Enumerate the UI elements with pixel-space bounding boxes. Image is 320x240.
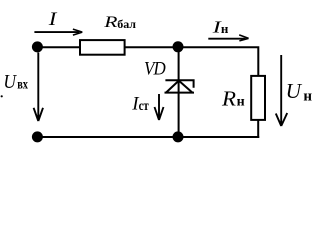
resistor Rбал (80, 40, 125, 55)
node bottom-middle (173, 131, 184, 142)
arrow voltage Uн (276, 55, 287, 126)
svg-text:VD: VD (144, 58, 166, 79)
wire Rн bottom lead (257, 120, 259, 138)
svg-text:вх: вх (17, 78, 28, 93)
svg-text:бал: бал (117, 17, 136, 31)
node top-left (32, 41, 43, 52)
zener diode VD cathode bar with hook (165, 80, 193, 88)
svg-text:R: R (103, 14, 118, 31)
svg-text:н: н (303, 89, 312, 105)
svg-text:н: н (221, 21, 229, 36)
svg-text:н: н (237, 94, 245, 109)
wire bottom rail (37, 136, 259, 138)
zener diode VD triangle base (165, 92, 195, 94)
svg-text:U: U (286, 79, 303, 103)
arrow current Iст (155, 94, 164, 120)
arrow voltage Uвх (34, 53, 43, 122)
wire top rail right segment with corner down to Rн (179, 47, 259, 75)
arrow current Iн (208, 38, 245, 40)
svg-text:R: R (221, 86, 236, 110)
wire top rail middle segment (125, 46, 179, 48)
resistor Rн (251, 76, 265, 120)
wire middle branch (178, 47, 180, 137)
zener diode VD triangle sides (166, 81, 192, 93)
wire top rail left segment (37, 46, 79, 48)
svg-text:I: I (48, 9, 59, 30)
scan speckle (1, 95, 3, 97)
node top-middle (173, 41, 184, 52)
svg-text:U: U (3, 71, 17, 93)
arrow current I (34, 31, 79, 33)
node bottom-left (32, 131, 43, 142)
svg-text:ст: ст (139, 99, 149, 114)
